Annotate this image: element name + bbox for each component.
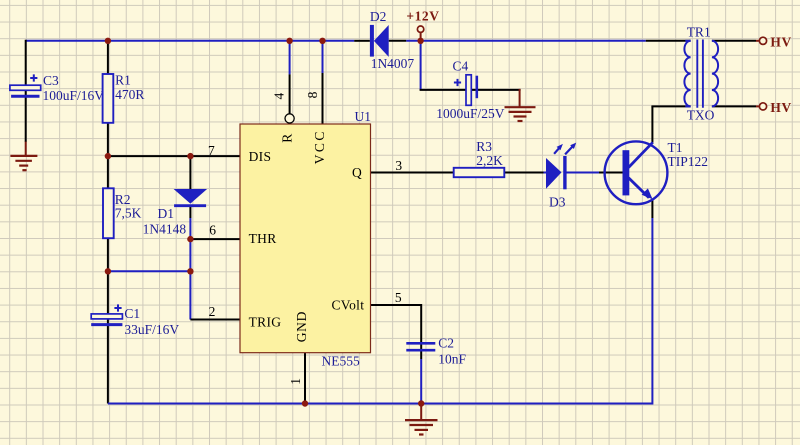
wire THR pin (black) <box>190 238 240 240</box>
wire top bus left (blue) <box>26 40 355 42</box>
wire junction row horizontal (blue) <box>108 270 190 272</box>
wire TR1 primary bottom lead (black) <box>651 105 690 107</box>
junction dot top bus R1 <box>105 38 111 44</box>
svg-text:T1: T1 <box>668 140 683 155</box>
svg-text:1000uF/25V: 1000uF/25V <box>436 106 505 121</box>
svg-text:7,5K: 7,5K <box>115 205 142 220</box>
wire R pin drop lower (black) <box>289 74 291 114</box>
wire HV top tip (maroon) <box>756 40 759 42</box>
svg-text:D2: D2 <box>370 9 387 24</box>
ground (below C4) <box>505 89 536 121</box>
svg-text:8: 8 <box>305 91 320 98</box>
wire R3 to D3 (black) <box>504 172 543 174</box>
junction dot bus pin1 <box>302 400 308 406</box>
svg-text:TXO: TXO <box>687 107 715 122</box>
wire D1 cathode down to TRIG corner (blue) <box>189 218 191 320</box>
wire C2 to bottom bus (blue) <box>420 359 422 404</box>
svg-text:2: 2 <box>209 304 216 319</box>
svg-text:TRIG: TRIG <box>249 315 282 330</box>
diode D2 <box>370 25 389 57</box>
wire D3 to base (black) <box>567 172 600 174</box>
svg-text:33uF/16V: 33uF/16V <box>124 322 179 337</box>
svg-text:470R: 470R <box>115 87 144 102</box>
wire CVolt pin (black) <box>371 304 422 306</box>
power port +12V <box>417 26 423 41</box>
svg-text:TIP122: TIP122 <box>668 154 709 169</box>
junction dot top bus pin8 <box>319 38 325 44</box>
capacitor C1 <box>91 304 122 324</box>
wire TRIG pin (black) <box>190 319 240 321</box>
wire VCC drop upper (blue) <box>322 41 324 73</box>
junction dot THR <box>187 236 193 242</box>
resistor R1 <box>103 74 114 123</box>
ground (below C3) <box>10 142 37 171</box>
transistor T1 <box>605 141 668 204</box>
svg-text:NE555: NE555 <box>322 354 360 369</box>
svg-text:1: 1 <box>288 378 303 385</box>
diode D1 <box>174 189 208 206</box>
svg-text:6: 6 <box>209 222 216 237</box>
svg-text:10nF: 10nF <box>438 352 466 367</box>
svg-text:VCC: VCC <box>312 131 327 164</box>
svg-text:1N4148: 1N4148 <box>143 222 187 237</box>
svg-text:TR1: TR1 <box>687 24 711 39</box>
LED D3 <box>546 143 576 190</box>
svg-text:C1: C1 <box>124 306 140 321</box>
svg-text:C3: C3 <box>43 73 59 88</box>
svg-text:U1: U1 <box>355 109 372 124</box>
ground (below bottom bus) <box>405 404 438 435</box>
svg-text:+12V: +12V <box>406 9 439 24</box>
transformer TR1 <box>684 40 718 108</box>
wire VCC drop lower (black) <box>322 73 324 124</box>
terminal HV bottom <box>759 103 766 110</box>
wire C3 leads (black) <box>25 40 27 142</box>
IC U1 NE555 body <box>240 124 371 353</box>
wire TR1 primary top lead (black) <box>646 40 691 42</box>
svg-text:C4: C4 <box>453 58 469 73</box>
junction dot junction row left <box>105 268 111 274</box>
svg-text:7: 7 <box>208 143 215 158</box>
wire D1 cathode stub (black) <box>189 207 191 218</box>
svg-text:C2: C2 <box>438 336 454 351</box>
wire CVolt down through C2 (black) <box>420 304 422 359</box>
svg-text:1N4007: 1N4007 <box>371 56 415 71</box>
wire junction row through C1 to bottom bus (black) <box>107 271 109 403</box>
svg-text:4: 4 <box>272 93 287 100</box>
svg-text:R1: R1 <box>115 72 131 87</box>
capacitor C2 <box>406 343 435 350</box>
resistor R2 <box>103 188 114 238</box>
svg-text:Q: Q <box>352 165 362 180</box>
pin R bubble <box>285 114 294 123</box>
wire bottom bus (blue) <box>108 403 653 405</box>
svg-text:100uF/16V: 100uF/16V <box>43 88 105 103</box>
wire emitter riser (blue) <box>651 218 653 405</box>
svg-text:THR: THR <box>249 231 277 246</box>
junction dot bus ground <box>418 400 424 406</box>
wire Q pin to R3 (black) <box>371 172 454 174</box>
svg-text:D3: D3 <box>549 194 566 209</box>
svg-text:CVolt: CVolt <box>332 298 365 313</box>
svg-text:DIS: DIS <box>249 149 272 164</box>
wire TR1 secondary bottom lead (black) <box>712 105 756 107</box>
resistor R3 <box>454 168 505 177</box>
svg-text:R: R <box>280 133 295 142</box>
wire emitter stub (black) <box>651 199 653 218</box>
junction dot +12V <box>417 38 423 44</box>
svg-text:D1: D1 <box>158 206 175 221</box>
wire collector stub (black) <box>651 106 653 142</box>
wire R2 bottom to junction row (black) <box>107 238 109 271</box>
wire HV bottom tip (maroon) <box>756 105 759 107</box>
wire D2 cathode stub (black) <box>354 40 370 42</box>
junction dot DIS row right <box>187 153 193 159</box>
wire TR1 secondary top lead (black) <box>712 40 756 42</box>
wire pin1 to bottom bus (black) <box>304 353 306 404</box>
junction dot junction row right <box>187 268 193 274</box>
svg-text:5: 5 <box>395 290 402 305</box>
wire D1 anode stub (black) <box>189 156 191 189</box>
wire +12V drop (blue) <box>420 41 422 90</box>
wire R pin drop upper (blue) <box>289 41 291 75</box>
svg-text:GND: GND <box>294 311 309 342</box>
wire R1 top lead (black) <box>107 40 109 74</box>
wire D2 anode stub (black) <box>389 40 407 42</box>
svg-text:3: 3 <box>395 158 402 173</box>
wire top bus right (blue) <box>406 40 646 42</box>
svg-text:HV: HV <box>770 34 791 49</box>
junction dot DIS row left <box>105 153 111 159</box>
capacitor C4 <box>454 75 477 106</box>
wire C4 leads (black) <box>420 89 521 91</box>
svg-text:R3: R3 <box>476 139 492 154</box>
svg-text:2,2K: 2,2K <box>476 153 503 168</box>
wire R1 bottom to R2 top (black) <box>107 123 109 189</box>
terminal HV top <box>759 37 766 44</box>
wire DIS row (black) <box>108 155 240 157</box>
junction dot top bus pin4 <box>286 38 292 44</box>
svg-text:HV: HV <box>770 100 791 115</box>
capacitor C3 <box>10 74 41 96</box>
